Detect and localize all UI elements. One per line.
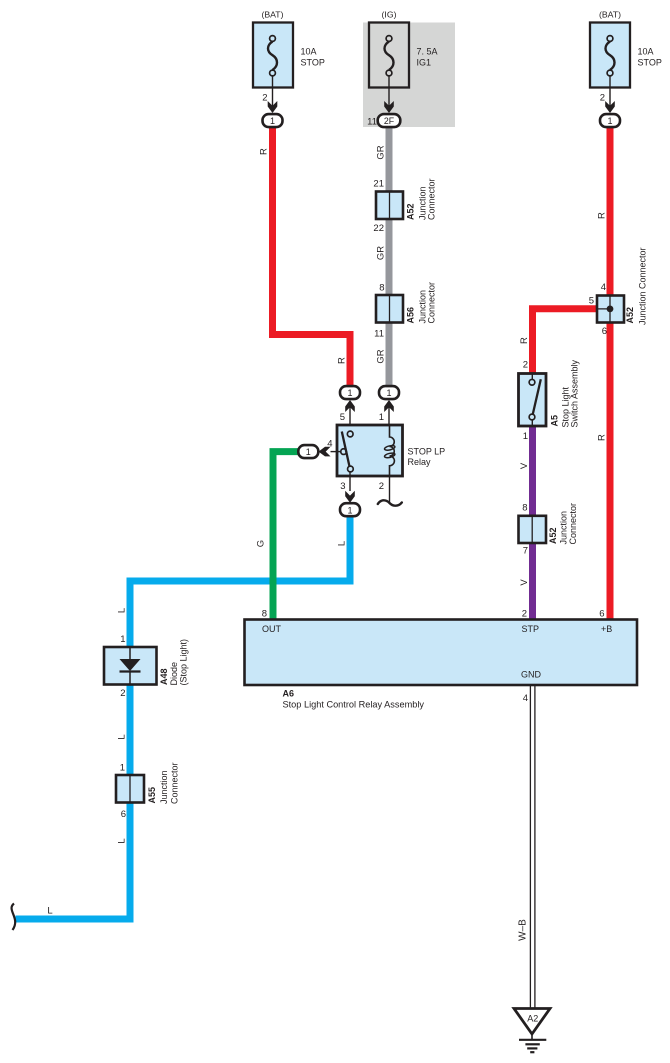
wire label V — [519, 579, 530, 586]
svg-text:Junction Connector: Junction Connector — [638, 247, 648, 325]
svg-text:L: L — [116, 608, 127, 613]
relay pin2 lead with break squiggle — [378, 476, 402, 506]
svg-text:6: 6 — [599, 609, 604, 620]
svg-text:L: L — [116, 838, 127, 843]
svg-text:(BAT): (BAT) — [261, 10, 283, 20]
wire label W-B — [518, 919, 529, 941]
svg-text:7: 7 — [523, 546, 528, 557]
wire gray GR from IG fuse to relay pin1 oval — [386, 126, 393, 388]
svg-text:R: R — [336, 357, 347, 364]
svg-text:1: 1 — [120, 634, 125, 645]
wire label L — [116, 734, 127, 739]
relay STOP LP box — [337, 425, 445, 476]
wire label R — [259, 148, 270, 155]
svg-text:A56: A56 — [406, 307, 416, 324]
wire label G — [256, 540, 267, 547]
pin 8 at A6 OUT — [262, 609, 267, 620]
svg-text:GR: GR — [375, 145, 386, 159]
relay pin4 lead with arrow — [319, 439, 333, 457]
junction connector A56 (on GR wire) — [374, 282, 436, 340]
svg-text:L: L — [47, 906, 52, 917]
svg-text:IG1: IG1 — [417, 57, 432, 67]
wire blue L from relay pin3 down-left to diode A48 — [130, 515, 350, 648]
svg-text:A2: A2 — [527, 1014, 538, 1024]
wire label R — [519, 337, 530, 344]
pin 4 at A6 GND — [523, 693, 528, 704]
svg-text:Relay: Relay — [408, 457, 432, 467]
svg-text:(Stop Light): (Stop Light) — [179, 639, 189, 686]
svg-text:W–B: W–B — [518, 919, 529, 941]
svg-text:Switch Assembly: Switch Assembly — [570, 359, 580, 427]
svg-text:Connector: Connector — [169, 762, 179, 804]
wire break squiggle — [12, 904, 16, 931]
stop light switch A5 — [519, 359, 580, 442]
svg-text:2: 2 — [600, 93, 605, 104]
A6 stop light control relay assembly box — [245, 620, 638, 686]
connector oval 1 at relay pin4 — [298, 445, 318, 458]
svg-text:V: V — [519, 462, 530, 469]
svg-text:2: 2 — [522, 609, 527, 620]
relay coil — [384, 425, 395, 476]
ground A2 — [514, 1009, 550, 1053]
svg-text:2: 2 — [262, 93, 267, 104]
svg-text:2: 2 — [120, 688, 125, 699]
svg-text:8: 8 — [379, 283, 384, 294]
wire blue L from junction A55 down and left to break — [16, 802, 131, 919]
wire label GR — [375, 246, 386, 260]
svg-text:OUT: OUT — [262, 624, 282, 634]
relay switch contacts — [331, 431, 354, 472]
svg-text:V: V — [519, 579, 530, 586]
connector oval 1 below left fuse — [263, 114, 283, 127]
svg-text:L: L — [336, 541, 347, 546]
wire label GR — [375, 145, 386, 159]
junction connector A52 (on GR wire) — [373, 178, 436, 234]
svg-text:2: 2 — [523, 360, 528, 371]
wire label L — [116, 838, 127, 843]
svg-text:A55: A55 — [147, 787, 157, 804]
svg-text:1: 1 — [347, 505, 352, 515]
relay pin5 lead with arrow — [340, 400, 355, 431]
wire blue L from diode A48 to junction A55 — [127, 684, 134, 776]
svg-text:22: 22 — [373, 223, 384, 234]
svg-text:3: 3 — [340, 481, 345, 492]
svg-text:7. 5A: 7. 5A — [417, 47, 438, 57]
svg-text:Stop Light Control Relay Assem: Stop Light Control Relay Assembly — [283, 700, 425, 710]
junction connector A55 (on L wire) — [116, 762, 179, 820]
svg-text:5: 5 — [589, 296, 594, 307]
svg-text:+B: +B — [601, 624, 612, 634]
wire purple V from switch A5 to A6 STP — [529, 425, 536, 620]
wire label GR — [375, 349, 386, 363]
svg-text:4: 4 — [523, 693, 528, 704]
wire green G from relay pin4 oval down to A6 OUT — [273, 452, 299, 620]
svg-text:STOP: STOP — [301, 57, 325, 67]
pin 11 of IG fuse — [367, 76, 394, 127]
connector oval 1 at relay pin3 — [340, 503, 360, 516]
svg-text:Connector: Connector — [568, 503, 578, 545]
svg-text:1: 1 — [120, 763, 125, 774]
svg-text:2F: 2F — [384, 116, 395, 126]
relay pin3 lead with arrow — [340, 472, 355, 503]
svg-text:6: 6 — [602, 326, 607, 337]
pin 6 at A6 +B — [599, 609, 604, 620]
connector oval 1 at relay pin1 — [379, 386, 399, 399]
svg-text:STP: STP — [522, 624, 540, 634]
wire red from BAT fuse 1 to relay pin5 oval — [273, 126, 351, 388]
fuse 7.5A IG1 (IG) — [369, 10, 438, 88]
A6 designator label — [283, 689, 425, 710]
svg-text:4: 4 — [601, 282, 606, 293]
wire label L — [116, 608, 127, 613]
svg-text:A6: A6 — [283, 689, 295, 699]
svg-text:5: 5 — [340, 412, 345, 423]
wire label L — [47, 906, 52, 917]
svg-text:1: 1 — [386, 388, 391, 398]
svg-text:10A: 10A — [301, 47, 317, 57]
wire label R — [596, 434, 607, 441]
svg-text:A52: A52 — [625, 307, 635, 324]
svg-text:G: G — [256, 540, 267, 547]
svg-text:STOP LP: STOP LP — [408, 446, 446, 456]
wire label V — [519, 462, 530, 469]
svg-text:1: 1 — [607, 116, 612, 126]
svg-text:10A: 10A — [638, 47, 654, 57]
wire label L — [336, 541, 347, 546]
svg-text:R: R — [596, 212, 607, 219]
svg-text:A5: A5 — [550, 415, 560, 427]
IG gray background block — [363, 23, 455, 128]
svg-text:GND: GND — [521, 670, 542, 680]
svg-text:Diode: Diode — [169, 662, 179, 686]
junction connector A52 (on V wire) — [519, 503, 578, 557]
svg-text:L: L — [116, 734, 127, 739]
svg-text:(BAT): (BAT) — [599, 10, 621, 20]
svg-text:GR: GR — [375, 246, 386, 260]
svg-text:2: 2 — [379, 481, 384, 492]
svg-text:11: 11 — [374, 329, 384, 340]
svg-text:Connector: Connector — [427, 282, 437, 324]
svg-text:A48: A48 — [159, 668, 169, 685]
svg-text:1: 1 — [379, 412, 384, 423]
fuse 10A STOP (BAT) right — [590, 10, 662, 88]
svg-text:1: 1 — [347, 388, 352, 398]
wire label R — [596, 212, 607, 219]
svg-text:R: R — [519, 337, 530, 344]
svg-text:(IG): (IG) — [382, 10, 397, 20]
svg-text:1: 1 — [523, 431, 528, 442]
svg-text:GR: GR — [375, 349, 386, 363]
svg-text:21: 21 — [373, 179, 384, 190]
svg-text:R: R — [259, 148, 270, 155]
diode A48 (stop light) — [104, 634, 189, 699]
svg-text:A52: A52 — [406, 203, 416, 220]
junction connector A52 (on R wire right) — [589, 247, 648, 337]
connector oval 1 at relay pin5 — [340, 386, 360, 399]
svg-text:R: R — [596, 434, 607, 441]
relay pin1 lead with arrow — [379, 400, 394, 425]
svg-text:STOP: STOP — [638, 57, 662, 67]
svg-text:Junction: Junction — [159, 770, 169, 804]
pin 2 of left fuse — [262, 76, 277, 113]
svg-text:A52: A52 — [548, 527, 558, 544]
connector oval 1 below right fuse — [600, 114, 620, 127]
svg-text:6: 6 — [121, 809, 126, 820]
svg-text:8: 8 — [262, 609, 267, 620]
svg-text:11: 11 — [367, 116, 377, 127]
connector oval 2F — [378, 114, 401, 127]
wire red from junction A52 to stop light switch A5 — [533, 309, 599, 374]
svg-text:Connector: Connector — [427, 178, 437, 220]
svg-text:8: 8 — [522, 503, 527, 514]
fuse 10A STOP (BAT) left — [253, 10, 325, 88]
svg-text:1: 1 — [270, 116, 275, 126]
pin 2 of right fuse — [600, 76, 615, 113]
wire red main from BAT fuse to A6 +B — [607, 126, 614, 620]
pin 2 at A6 STP — [522, 609, 527, 620]
wire label R — [336, 357, 347, 364]
svg-text:1: 1 — [306, 447, 311, 457]
wire W-B from A6 GND to ground A2 — [530, 685, 535, 1009]
